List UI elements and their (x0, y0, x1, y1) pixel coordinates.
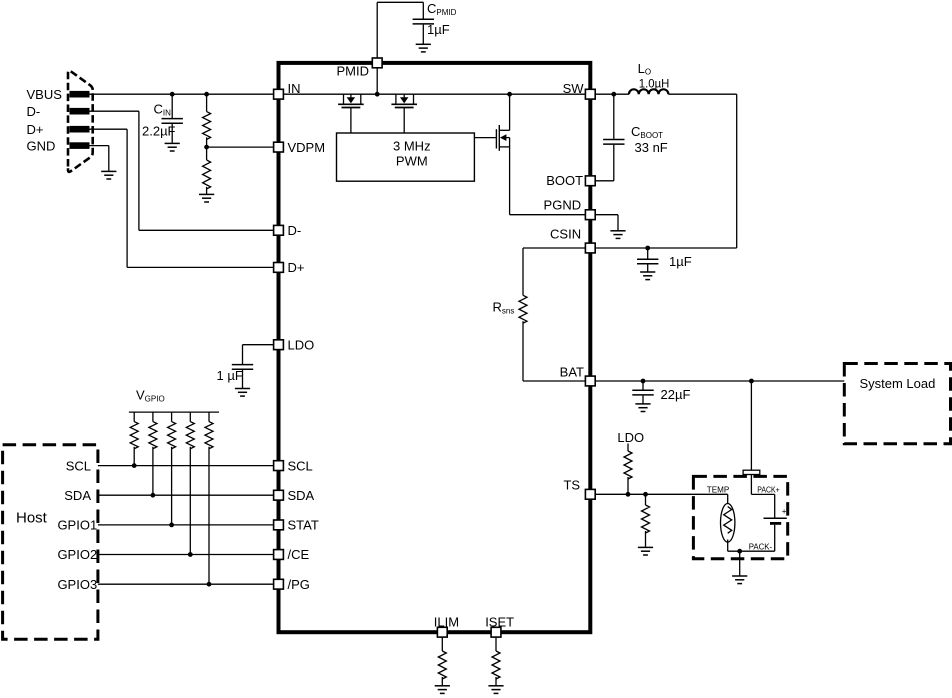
svg-text:D+: D+ (288, 260, 305, 275)
svg-text:+: + (782, 507, 787, 516)
svg-text:SW: SW (563, 81, 585, 96)
svg-text:BOOT: BOOT (546, 173, 583, 188)
svg-text:TEMP: TEMP (707, 485, 730, 495)
svg-text:CSIN: CSIN (550, 227, 581, 242)
svg-text:D-: D- (288, 223, 302, 238)
svg-text:/PG: /PG (288, 577, 310, 592)
svg-text:TS: TS (563, 477, 580, 492)
svg-text:22µF: 22µF (661, 387, 691, 402)
svg-text:PACK-: PACK- (749, 541, 773, 551)
svg-text:GPIO3: GPIO3 (57, 577, 97, 592)
svg-text:PWM: PWM (396, 153, 428, 168)
svg-text:SDA: SDA (64, 488, 91, 503)
svg-text:SCL: SCL (288, 458, 313, 473)
svg-text:STAT: STAT (288, 518, 319, 533)
svg-text:IN: IN (288, 81, 301, 96)
svg-text:3 MHz: 3 MHz (393, 139, 431, 154)
svg-text:GPIO2: GPIO2 (57, 547, 97, 562)
svg-text:GND: GND (27, 138, 56, 153)
svg-text:VDPM: VDPM (288, 140, 326, 155)
svg-text:PMID: PMID (337, 64, 370, 79)
svg-text:System Load: System Load (859, 376, 935, 391)
svg-text:LDO: LDO (617, 430, 644, 445)
svg-text:1µF: 1µF (669, 254, 692, 269)
svg-text:1.0µH: 1.0µH (639, 76, 670, 90)
svg-text:SCL: SCL (66, 458, 91, 473)
svg-text:PACK+: PACK+ (757, 485, 780, 495)
svg-text:2.2µF: 2.2µF (142, 124, 176, 139)
svg-text:D+: D+ (27, 122, 44, 137)
svg-text:BAT: BAT (560, 364, 584, 379)
svg-text:1 µF: 1 µF (217, 368, 243, 383)
svg-text:Host: Host (16, 510, 48, 527)
svg-text:/CE: /CE (288, 547, 310, 562)
svg-text:SDA: SDA (288, 488, 315, 503)
svg-text:1µF: 1µF (427, 22, 450, 37)
svg-text:LDO: LDO (288, 337, 315, 352)
svg-text:33 nF: 33 nF (635, 140, 668, 155)
svg-text:PGND: PGND (544, 198, 582, 213)
svg-text:GPIO1: GPIO1 (57, 518, 97, 533)
svg-text:D-: D- (27, 104, 41, 119)
svg-text:VBUS: VBUS (27, 87, 63, 102)
